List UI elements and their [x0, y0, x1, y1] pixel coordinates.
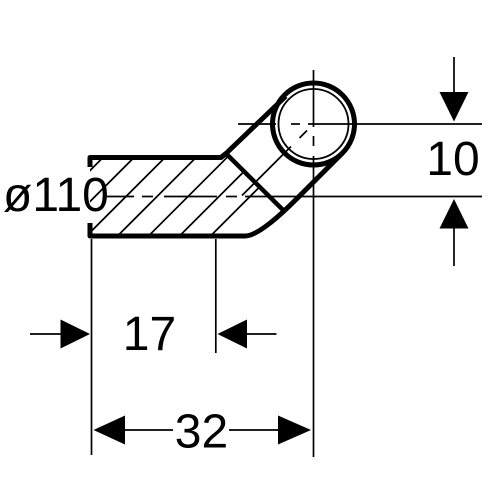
socket bore inner circle	[279, 89, 349, 159]
neck diagonal centerline	[242, 131, 307, 196]
svg-text:ø110: ø110	[3, 169, 109, 222]
extension line middle (17 dimension)	[215, 239, 217, 353]
dimension 10 upper arrow tail	[453, 57, 455, 92]
pipe bottom edge with end tick, bend curve and neck lower edge	[90, 153, 343, 236]
extension line left (pipe end)	[91, 239, 93, 455]
dimension 17 left arrowhead	[61, 320, 91, 349]
svg-text:32: 32	[175, 406, 228, 459]
svg-text:10: 10	[426, 133, 479, 186]
pipe axis centerline (dash-dot, extends right as dimension reference)	[106, 196, 482, 198]
dimension 32 left arrowhead	[94, 416, 126, 445]
dimension 10 lower arrowhead (points up)	[440, 199, 469, 229]
dimension 32 right arrowhead	[278, 416, 311, 445]
svg-text:17: 17	[123, 308, 176, 361]
circle horizontal centerline (extends right as dimension reference)	[238, 123, 482, 125]
dimension 17 left arrow tail	[30, 333, 61, 335]
dimension 10 lower arrow tail	[453, 229, 455, 267]
dimension 32 line left part	[125, 429, 173, 431]
dimension 17 right arrow tail	[247, 333, 277, 335]
hatching (section lines 45deg)	[11, 140, 307, 250]
socket rim outer circle	[273, 83, 355, 165]
dimension 32 line right part	[229, 429, 279, 431]
surface seam line at bend	[226, 154, 285, 213]
dimension 10 upper arrowhead (points down)	[440, 92, 469, 122]
pipe top edge with end tick and neck upper edge	[90, 96, 286, 167]
dimension 17 right arrowhead	[218, 320, 248, 349]
circle vertical centerline (extends down as extension line)	[313, 70, 315, 457]
